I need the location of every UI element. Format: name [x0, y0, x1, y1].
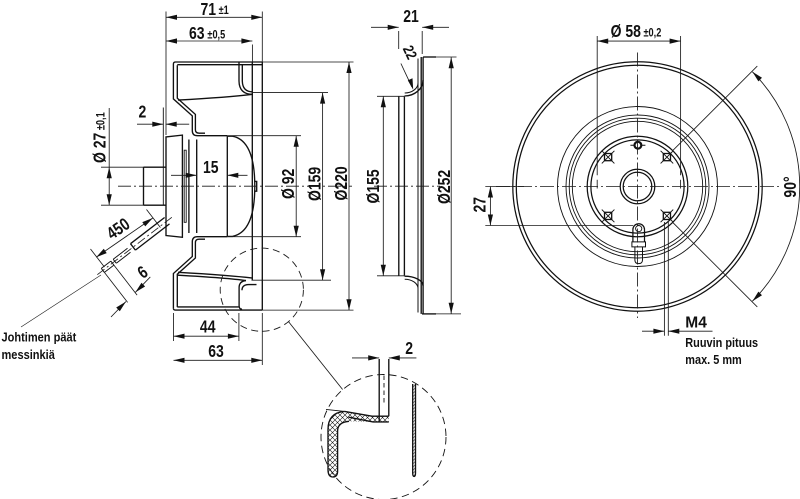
svg-text:2: 2: [405, 339, 413, 358]
blade leading edge pair: [239, 62, 242, 81]
impeller rim inner circle: [516, 65, 758, 307]
rotor rim: [226, 136, 228, 236]
cable grommet hole: [636, 226, 642, 232]
impeller bottom edge outer: [173, 308, 262, 310]
flange spacer plate: [184, 150, 186, 222]
dimension 21 lines: [371, 26, 449, 28]
dimension Ø27 line: [108, 108, 110, 205]
rear support plate: [261, 62, 263, 310]
blade leading edge outer curve: [239, 81, 253, 94]
arrows 71: [166, 15, 262, 20]
dimension 6 lines: [111, 277, 150, 317]
cable grommet collar: [632, 242, 646, 247]
dimension 44 ext lines: [174, 313, 239, 341]
svg-text:2: 2: [139, 103, 147, 122]
dimension Ø92 line: [295, 136, 297, 237]
dimension 2 left lines: [137, 123, 189, 125]
wire thin section: [113, 248, 130, 263]
dimension 71 ext right: [261, 12, 263, 63]
shaft end bump: [254, 181, 257, 191]
screw upper-right: [661, 151, 674, 164]
arrows 63 bottom: [174, 358, 263, 363]
arrows 15: [186, 173, 239, 178]
arrows Ø58: [597, 39, 680, 44]
cable grommet dome: [633, 224, 645, 242]
dimension 27 line: [489, 187, 491, 226]
wire brass ferrule: [101, 261, 114, 272]
dimension 63±0.5 ext right: [251, 45, 253, 63]
dimension M4 vertical lines: [664, 222, 668, 336]
arrows Ø220: [346, 62, 351, 310]
inset blade right wall: [388, 359, 390, 416]
centerline horizontal right view: [496, 186, 780, 188]
dimension M4 arrow lines: [642, 330, 713, 332]
shroud slant top: [178, 94, 253, 100]
dimension 71 ext left: [165, 12, 167, 136]
centerline vertical right view: [637, 53, 639, 319]
rotor outer circle: [587, 136, 688, 237]
svg-text:±0,2: ±0,2: [644, 28, 662, 40]
inlet ring circle R65.2: [572, 121, 702, 251]
ring profile bottom edge ext to Ø252: [436, 313, 461, 315]
dimension Ø92 ext lines: [227, 136, 301, 237]
svg-text:63: 63: [208, 342, 224, 361]
inset beak tip line: [326, 409, 345, 411]
inset second blade right: [415, 384, 417, 473]
motor flange plate: [166, 135, 182, 237]
top flare inner curve: [405, 83, 418, 93]
wire centerline: [97, 217, 172, 274]
cable grommet tube: [635, 247, 643, 264]
arrows Ø159: [320, 93, 325, 281]
dimension 27 ext lines: [485, 187, 633, 226]
svg-text:Ruuvin pituus: Ruuvin pituus: [685, 335, 758, 350]
svg-text:27: 27: [471, 197, 490, 213]
dimension Ø220 line: [348, 62, 350, 310]
arrowhead 22 leader: [408, 78, 413, 90]
svg-text:Ø159: Ø159: [306, 167, 325, 201]
rotor dome: [227, 136, 255, 236]
impeller bottom edge ext line to Ø220: [262, 309, 353, 311]
inset curl outer: [328, 411, 349, 477]
svg-text:Ø 58: Ø 58: [611, 22, 641, 41]
90 degree arc: [752, 72, 799, 301]
impeller top edge outer: [173, 62, 262, 64]
centerline left view: [118, 185, 352, 187]
dimension Ø155 line: [382, 96, 384, 275]
dimension 6 ext ticks: [104, 265, 137, 302]
svg-text:messinkiä: messinkiä: [2, 347, 56, 362]
arrows 21: [388, 25, 434, 30]
arrows Ø155: [381, 96, 386, 275]
arrows Ø92: [294, 136, 299, 237]
inlet ring top outer wall: [173, 64, 227, 136]
arrows 63 top: [166, 38, 252, 43]
inset blade left wall: [378, 359, 380, 422]
inlet ring circle R68.3: [569, 118, 706, 255]
svg-text:15: 15: [203, 158, 219, 177]
dimension 450 line: [96, 218, 153, 257]
top flare outer curve: [404, 80, 423, 96]
arrows 2 inset: [368, 355, 400, 360]
back plate slant bottom upper line: [178, 272, 253, 278]
inset second blade rounded tip: [413, 473, 416, 476]
dimension 15 lines: [171, 174, 248, 176]
inset blade hidden dashed line: [383, 376, 385, 405]
svg-text:Ø252: Ø252: [435, 170, 454, 204]
dimension 450 ext ticks: [91, 210, 161, 268]
screw lower-left: [602, 210, 615, 223]
detail circle dashed: [220, 248, 303, 331]
impeller top inner edge: [177, 64, 262, 66]
dimension Ø155 ext lines: [377, 96, 404, 275]
inlet ring circle R80: [558, 107, 718, 267]
svg-text:Johtimen päät: Johtimen päät: [2, 330, 77, 345]
90 degree ext line upper: [673, 66, 758, 151]
screw upper-left: [602, 151, 615, 164]
inset back plate bottom line: [349, 417, 389, 422]
inlet ring bottom inner wall: [177, 239, 205, 307]
dimension Ø58 ext lines: [597, 36, 680, 189]
leader detail circle to inset: [289, 322, 343, 390]
blade leading edge inner curve: [242, 81, 252, 92]
shaft: [144, 167, 167, 205]
svg-text:63: 63: [189, 24, 205, 43]
arrowhead 90 arc lower: [752, 292, 762, 302]
dimension 63 bottom line: [174, 359, 263, 361]
svg-text:Ø 92: Ø 92: [280, 169, 299, 199]
dimension 63 bottom ext right: [261, 313, 263, 365]
svg-text:21: 21: [403, 7, 419, 26]
dimension 63±0.5 line: [166, 40, 252, 42]
ring profile top edge: [423, 56, 436, 58]
impeller outer circle: [513, 62, 762, 311]
dimension 2 inset lines: [352, 357, 416, 359]
centerline middle view: [374, 185, 440, 187]
inset second blade left: [412, 384, 414, 473]
back plate slant bottom lower line: [178, 275, 246, 280]
svg-text:M4: M4: [685, 314, 707, 331]
hub washer front face: [162, 108, 164, 206]
impeller top edge ext line to Ø220: [262, 61, 353, 63]
diagonal hatch fill in second blade: [413, 384, 416, 476]
crosshatch fill in curled channel: [328, 411, 389, 477]
90 degree ext line lower: [673, 222, 758, 307]
leader 22: [401, 64, 412, 87]
hub outer circle: [620, 169, 655, 204]
dimension Ø27 ext lines: [101, 167, 144, 205]
impeller bottom inner edge: [177, 306, 239, 308]
rotor inner circle: [591, 140, 684, 233]
top locating pin: [630, 142, 645, 149]
motor front face lines: [189, 140, 197, 234]
arrows 27: [488, 187, 493, 226]
dimension Ø58 line: [597, 40, 680, 42]
ring profile top edge ext to Ø252: [436, 56, 457, 58]
arrowhead 90 arc upper: [752, 72, 762, 82]
svg-text:Ø155: Ø155: [364, 169, 383, 203]
back plate front face: [251, 62, 253, 280]
svg-text:max. 5 mm: max. 5 mm: [685, 352, 741, 367]
inset dashed circle: [321, 375, 446, 499]
svg-text:±0,5: ±0,5: [207, 29, 225, 41]
svg-text:±1: ±1: [219, 5, 229, 17]
svg-text:Ø220: Ø220: [332, 166, 351, 200]
inlet ring circle R71.5: [566, 115, 709, 258]
dimension Ø252 line: [450, 57, 452, 313]
svg-text:71: 71: [201, 1, 217, 20]
hub bore circle: [623, 172, 652, 201]
arrows 450: [96, 218, 153, 257]
bottom flare outer curve: [404, 276, 423, 286]
svg-text:44: 44: [200, 318, 216, 337]
bottom flare inner curve: [405, 279, 418, 288]
svg-text:90°: 90°: [782, 176, 800, 197]
arrows Ø252: [449, 57, 454, 313]
arrows 44: [174, 334, 239, 339]
dimension 44 line: [174, 335, 239, 337]
ring profile bottom edge: [422, 313, 436, 315]
ring inner cylinder pair: [399, 96, 405, 275]
inlet ring top inner wall: [177, 65, 205, 133]
arrows 6: [116, 283, 145, 311]
rolled rim curl outer: [239, 281, 246, 309]
dimension Ø159 line: [322, 93, 324, 281]
dimension Ø159 ext lines: [252, 93, 332, 281]
arrows Ø27: [107, 167, 112, 205]
ring profile right edge pair: [421, 57, 423, 314]
inset back plate top line: [345, 411, 389, 416]
arrows M4: [653, 329, 679, 334]
inlet ring bottom outer wall: [173, 237, 227, 309]
dimension 71±1 line: [166, 16, 262, 18]
rolled rim curl inner: [242, 285, 257, 291]
arrows 2 left: [152, 122, 176, 127]
wire sleeve: [131, 218, 170, 251]
dimension 21 ext lines: [399, 31, 423, 54]
leader to Johtimen text: [21, 275, 101, 327]
screw lower-right: [661, 210, 674, 223]
ring profile inner line: [417, 59, 419, 313]
